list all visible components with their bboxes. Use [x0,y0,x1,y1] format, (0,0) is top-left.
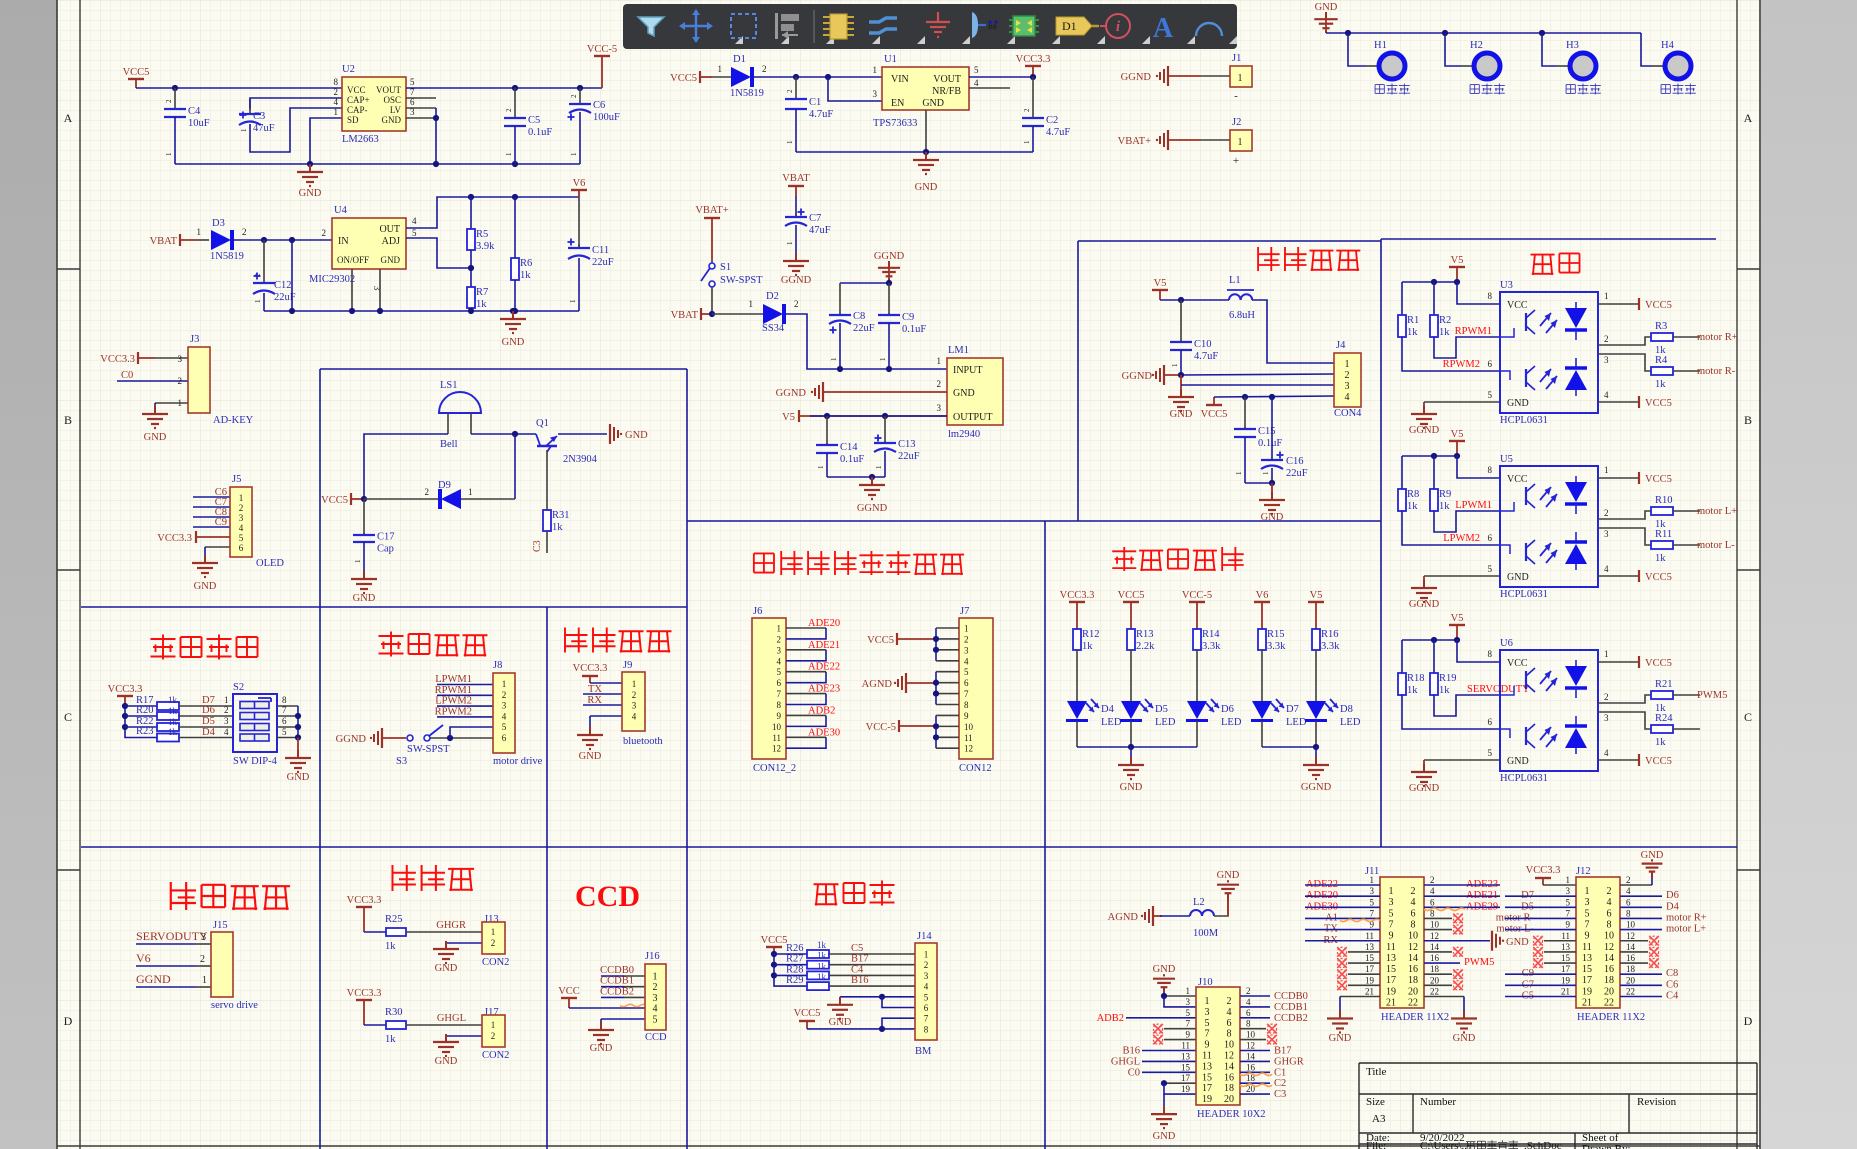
svg-text:U4: U4 [334,205,348,216]
svg-text:J15: J15 [213,920,228,931]
wire J13 pin2 to GND [446,942,482,944]
svg-text:SERVODUTY: SERVODUTY [136,929,208,943]
svg-text:2: 2 [653,982,658,993]
svg-text:CCDB0: CCDB0 [600,965,634,976]
net label V6 at J15 [136,951,211,966]
svg-text:1: 1 [468,487,473,497]
power port VCC3.3 at J5 [157,531,230,544]
wire U6 pin4 to VCC5 [1598,748,1672,767]
net label GHGL at J10 [1111,1056,1196,1067]
svg-text:V5: V5 [1451,429,1464,440]
svg-text:20: 20 [1408,986,1418,997]
wire branch to rail [291,240,293,311]
svg-text:0.1uF: 0.1uF [1258,438,1282,449]
connector J9 bluetooth [622,660,663,747]
wire J5 pin6 to GND [205,546,230,548]
net label B16 at J10 [1122,1046,1196,1057]
svg-text:8: 8 [1411,919,1416,930]
svg-text:VBAT: VBAT [671,310,699,321]
power port V6 [571,178,587,197]
junction U1 gnd [923,149,929,155]
svg-text:15: 15 [1365,953,1375,963]
svg-text:D1: D1 [733,54,746,65]
svg-text:1: 1 [505,152,513,156]
capacitor C6 100uF [568,85,621,164]
resistor R2 1k [1430,282,1500,358]
connector J6 CON12_2 [752,606,796,774]
svg-text:motor L+: motor L+ [1666,924,1706,935]
resistor R16 3.3k [1312,629,1340,701]
power port VCC3.3 at U1 [1016,54,1051,80]
svg-text:7: 7 [1205,1029,1210,1040]
svg-text:1: 1 [491,1020,496,1030]
power port GGND at J4 [1122,365,1181,385]
svg-text:A: A [1153,13,1174,44]
svg-text:1k: 1k [1655,379,1666,390]
wire U2 pin2 to C3 [250,98,342,108]
svg-text:VCC5: VCC5 [761,935,788,946]
svg-text:OSC: OSC [383,95,401,105]
svg-text:4: 4 [974,78,979,88]
svg-text:GND: GND [287,772,310,783]
svg-text:2: 2 [570,94,578,98]
ground symbol GND under C10 [1168,375,1194,420]
connector J5 OLED [230,474,284,569]
capacitor C13 22uF [874,416,920,477]
wires J6 pins with ADE net labels [786,618,840,748]
svg-text:7: 7 [777,689,782,699]
svg-text:14: 14 [1604,953,1614,964]
svg-text:6: 6 [1430,897,1435,907]
svg-text:ON/OFF: ON/OFF [337,255,369,265]
svg-text:2: 2 [1023,108,1031,112]
LED D4 [1066,699,1122,747]
power port V5 at LED D8 [1308,590,1324,629]
svg-text:4: 4 [224,727,229,737]
svg-text:VCC: VCC [347,85,366,95]
svg-text:R12: R12 [1082,629,1100,640]
wire VBAT+ to J2 [1200,139,1230,141]
svg-text:CON12: CON12 [959,763,992,774]
wire LED group1 to GND [1077,744,1197,757]
svg-text:1k: 1k [385,941,396,952]
svg-text:16: 16 [1604,964,1614,975]
svg-text:5: 5 [1488,390,1493,400]
svg-text:2: 2 [937,379,942,389]
svg-text:GHGL: GHGL [437,1013,466,1024]
resistor R12 1k [1073,629,1100,701]
svg-text:CON12_2: CON12_2 [753,763,796,774]
svg-text:VCC5: VCC5 [1645,474,1672,485]
svg-text:17: 17 [1386,975,1396,986]
connector J3 AD-KEY [178,334,254,426]
svg-text:ADE23: ADE23 [808,684,840,695]
svg-text:motor R+: motor R+ [1697,332,1738,343]
svg-text:10uF: 10uF [188,118,210,129]
svg-text:MIC29302: MIC29302 [309,274,355,285]
svg-text:D4: D4 [202,727,216,738]
resistor R3 1k [1598,321,1700,356]
svg-text:2: 2 [425,487,430,497]
diode D9 [425,480,473,509]
svg-text:8: 8 [1626,908,1631,918]
power port V5 at L1 [1152,278,1168,300]
svg-text:6: 6 [924,1003,929,1013]
svg-text:J6: J6 [753,606,762,617]
svg-text:D: D [64,1014,73,1028]
svg-text:1: 1 [718,64,723,74]
svg-text:AGND: AGND [1108,912,1139,923]
svg-text:6: 6 [1488,533,1493,543]
pin numbers J11 [1365,875,1440,997]
svg-text:+: + [1233,155,1239,167]
svg-text:R30: R30 [385,1007,403,1018]
svg-text:1: 1 [569,299,577,303]
capacitor C9 0.1uF [878,283,926,369]
wire U3 pin1 to VCC5 [1598,291,1672,311]
svg-text:VIN: VIN [891,74,909,85]
power port VCC5 at J4 flipped [1201,397,1228,420]
power port VBAT+ at S1 [695,205,728,259]
svg-text:LPWM1: LPWM1 [1455,500,1492,511]
svg-text:10: 10 [1430,920,1440,930]
svg-text:10: 10 [1246,1030,1256,1040]
svg-text:D6: D6 [1221,704,1234,715]
capacitor C16 22uF [1261,397,1308,486]
svg-text:5: 5 [1566,897,1571,907]
ground symbol GGND at U3 [1409,406,1440,436]
svg-text:C5: C5 [528,115,540,126]
svg-text:5: 5 [1205,1018,1210,1029]
svg-text:4: 4 [1227,1007,1232,1018]
svg-text:2: 2 [924,960,929,970]
toolbar icon arc [1196,23,1222,36]
power port AGND at L2 [1108,906,1162,926]
svg-text:2: 2 [786,89,794,93]
svg-text:AGND: AGND [862,679,893,690]
svg-text:GND: GND [953,388,975,399]
svg-text:C7: C7 [809,213,821,224]
power port V5 at U3 [1449,255,1465,282]
wire U3 pin4 to VCC5 [1598,390,1672,409]
svg-text:3: 3 [1604,713,1609,723]
svg-text:7: 7 [1370,908,1375,918]
power port VCC-5 top [587,44,617,88]
wire J16 pin5 to GND [601,1018,645,1020]
svg-text:1: 1 [178,398,183,408]
svg-text:VOUT: VOUT [376,85,401,95]
wire J10 pin1 pin3 to GND [1161,993,1196,1007]
svg-text:Q1: Q1 [536,418,549,429]
wire J14 pin5 pin6 group [840,994,915,1008]
svg-text:1k: 1k [1439,501,1450,512]
toolbar icon part green [1009,16,1039,36]
svg-text:14: 14 [1408,953,1418,964]
svg-text:1k: 1k [817,951,827,961]
svg-text:2: 2 [1607,886,1612,897]
connector J17 CON2 [482,1007,509,1061]
svg-text:1: 1 [964,624,969,634]
svg-text:6: 6 [1246,1008,1251,1018]
power port VBAT at D2 [671,308,712,321]
power port V5 at U5 [1449,429,1465,456]
svg-text:0.1uF: 0.1uF [902,324,926,335]
svg-text:GGND: GGND [1301,782,1332,793]
svg-text:9: 9 [1566,920,1571,930]
svg-text:4: 4 [1430,886,1435,896]
net label C1 with squiggle [1240,1067,1286,1078]
svg-text:D1: D1 [1062,19,1077,33]
svg-text:GND: GND [1315,2,1338,13]
svg-text:V5: V5 [1451,613,1464,624]
svg-text:Cap: Cap [377,544,394,555]
wire mounting hole bus [1326,30,1641,36]
svg-text:10: 10 [1224,1040,1234,1051]
svg-text:1k: 1k [817,961,827,971]
svg-text:8: 8 [1607,919,1612,930]
svg-text:VCC: VCC [1507,658,1528,669]
svg-text:File:: File: [1366,1140,1386,1149]
resistor R15 3.3k [1258,629,1286,701]
svg-text:5: 5 [412,228,417,238]
svg-text:HEADER 11X2: HEADER 11X2 [1381,1012,1449,1023]
svg-text:19: 19 [1181,1084,1191,1094]
svg-text:2: 2 [1411,886,1416,897]
svg-text:R31: R31 [552,510,570,521]
junction base node [512,431,518,437]
toolbar icon GND port [926,12,950,37]
svg-text:A3: A3 [1372,1113,1386,1125]
svg-text:3: 3 [632,701,637,711]
ground symbol GND under J17 [433,1034,459,1067]
svg-text:1: 1 [879,357,887,361]
svg-text:1: 1 [570,152,578,156]
svg-text:VBAT+: VBAT+ [695,205,728,216]
svg-text:22: 22 [1408,998,1418,1009]
svg-text:C17: C17 [377,532,395,543]
svg-text:motor drive: motor drive [493,756,543,767]
svg-text:SS34: SS34 [762,323,785,334]
section divider lines [81,239,1737,1149]
svg-text:Size: Size [1366,1096,1385,1108]
svg-text:1: 1 [777,624,782,634]
svg-text:J1: J1 [1232,53,1241,64]
capacitor C7 47uF [795,196,797,217]
wire V5 rail U3 [1402,279,1500,304]
svg-text:3.3k: 3.3k [1202,641,1221,652]
svg-text:19: 19 [1365,975,1375,985]
svg-text:16: 16 [1246,1062,1256,1072]
svg-text:13: 13 [1582,953,1592,964]
connector J4 CON4 [1334,340,1362,419]
svg-text:LED: LED [1340,717,1361,728]
ground symbol GND under J5 [192,547,218,592]
DIP switch S2 SW DIP-4 [233,682,278,767]
svg-text:13: 13 [1202,1061,1212,1072]
svg-text:1: 1 [254,299,262,303]
LED D6 [1186,699,1242,747]
svg-text:4: 4 [412,216,417,226]
svg-text:C0: C0 [1128,1067,1140,1078]
svg-text:3: 3 [964,645,969,655]
resistor R30 1k [364,1007,482,1045]
power port VCC3.3 at R30 [347,988,382,1025]
svg-text:R6: R6 [520,258,532,269]
power port VCC3.3 at J9 [573,663,622,683]
power port GND above J12 [1641,850,1664,878]
title block [1359,1063,1757,1149]
svg-text:VCC: VCC [1507,300,1528,311]
svg-text:J8: J8 [493,660,502,671]
ground symbol GND below J10 [1151,1106,1177,1142]
svg-text:C1: C1 [809,97,821,108]
svg-text:2: 2 [1246,986,1251,996]
svg-text:1: 1 [1389,886,1394,897]
wire J11 pin12 to GND port [1424,931,1529,951]
ground symbol GND under C16 [1259,483,1285,523]
svg-text:J5: J5 [232,474,241,485]
svg-text:PWM5: PWM5 [1464,957,1494,968]
svg-text:1: 1 [1186,986,1191,996]
application background right [1761,0,1857,1149]
svg-text:1: 1 [817,465,825,469]
svg-text:GND: GND [435,1056,458,1067]
svg-text:R4: R4 [1655,355,1668,366]
svg-text:LED: LED [1286,717,1307,728]
wire J10 pin17 pin19 to GND [1161,1080,1196,1106]
svg-text:11: 11 [772,733,781,743]
svg-text:GGND: GGND [336,734,367,745]
resistor R8 1k [1398,456,1500,545]
wire U4 ADJ to divider [406,238,471,268]
svg-text:HCPL0631: HCPL0631 [1500,415,1548,426]
svg-text:C14: C14 [840,442,858,453]
svg-text:22: 22 [1430,987,1439,997]
svg-text:LPWM2: LPWM2 [435,696,472,707]
svg-text:1k: 1k [168,706,178,716]
svg-text:20: 20 [1626,975,1636,985]
wire U2 pin4 to C3 bottom [250,108,342,152]
wires J7 pins 9-12 [933,715,959,748]
power port VCC3.3 at S2 [108,684,143,706]
wire V5 rail U6 [1402,637,1500,662]
svg-text:C8: C8 [853,311,865,322]
svg-text:21: 21 [1365,987,1374,997]
svg-text:GGND: GGND [136,972,171,986]
svg-text:GGND: GGND [874,251,905,262]
svg-text:GND: GND [922,98,944,109]
svg-text:2: 2 [200,954,205,965]
power port VCC5 at D1 [670,71,712,84]
svg-text:C3: C3 [1274,1089,1286,1100]
capacitor C17 Cap [353,499,395,571]
svg-text:3: 3 [1604,529,1609,539]
svg-text:LED: LED [1155,717,1176,728]
power port VBAT at C7 [782,173,810,196]
svg-text:2: 2 [1227,996,1232,1007]
svg-text:1: 1 [239,493,244,503]
svg-text:servo drive: servo drive [211,1000,258,1011]
capacitor C1 4.7uF [785,77,833,152]
connector J2 [1230,117,1252,167]
svg-text:12: 12 [772,744,781,754]
svg-text:1: 1 [1023,140,1031,144]
power port GGND at S3 [336,728,406,748]
svg-text:VCC3.3: VCC3.3 [108,684,143,695]
svg-text:14: 14 [1626,942,1636,952]
svg-text:D4: D4 [1666,901,1680,912]
svg-text:GND: GND [579,751,602,762]
svg-text:4: 4 [1626,886,1631,896]
optocoupler U5 HCPL0631 [1500,454,1598,600]
resistor R10 1k [1598,495,1700,530]
svg-text:VCC3.3: VCC3.3 [157,533,192,544]
svg-text:GGND: GGND [1409,783,1440,794]
wire VCC3.3 column S2 [122,703,157,738]
resistor R19 1k [1430,640,1500,716]
svg-text:22uF: 22uF [1286,468,1308,479]
wire V5 to L1 [1160,297,1229,303]
wire U2 pin7 stub [406,97,436,99]
power port VCC5 at J7 [867,633,936,646]
power port VCC-5 at LED D6 [1182,590,1212,629]
ground symbol GND under J9 [577,716,603,762]
pin numbers J10 left [1181,986,1256,1094]
sheet border frame [56,0,58,1149]
svg-text:VCC: VCC [558,986,580,997]
junction at C4 top [172,85,178,91]
svg-text:GND: GND [381,255,401,265]
net labels left of J12 [1496,890,1576,934]
section title 电机插针 [379,635,404,637]
svg-text:ADJ: ADJ [382,236,400,247]
svg-text:8: 8 [334,77,339,87]
svg-text:TPS73633: TPS73633 [873,118,917,129]
svg-text:U2: U2 [342,64,355,75]
switch S3 SW-SPST [396,725,450,767]
svg-text:motor L-: motor L- [1697,540,1735,551]
wire U6 pin5 to GGND [1424,748,1500,764]
wire L2 to GND [1214,896,1228,916]
svg-text:13: 13 [1386,953,1396,964]
svg-text:11: 11 [1582,942,1592,953]
section title 电源指示灯 [1112,550,1136,552]
wire VCC5 to U2 pin8 [136,87,342,89]
svg-text:ADB2: ADB2 [1097,1013,1124,1024]
svg-text:GND: GND [1120,782,1143,793]
svg-text:CON2: CON2 [482,957,509,968]
svg-text:18: 18 [1604,975,1614,986]
svg-text:C8: C8 [1666,968,1678,979]
svg-text:1k: 1k [1439,685,1450,696]
svg-text:10: 10 [1604,931,1614,942]
svg-text:11: 11 [1386,942,1396,953]
svg-text:NR/FB: NR/FB [932,86,961,97]
svg-text:1: 1 [653,972,658,983]
svg-text:C3: C3 [253,111,265,122]
junction EN branch [825,74,831,80]
svg-text:3: 3 [1345,381,1350,392]
svg-text:B: B [1744,413,1752,427]
svg-text:HEADER 10X2: HEADER 10X2 [1197,1109,1266,1120]
IC U1 TPS73633 [873,54,980,129]
wires J7 pins 1-4 [933,628,959,661]
svg-text:R21: R21 [1655,679,1673,690]
capacitor C12 22uF [253,240,296,311]
svg-text:J12: J12 [1576,866,1591,877]
svg-text:C2: C2 [1274,1078,1286,1089]
section title 拨码开关 [151,638,176,640]
